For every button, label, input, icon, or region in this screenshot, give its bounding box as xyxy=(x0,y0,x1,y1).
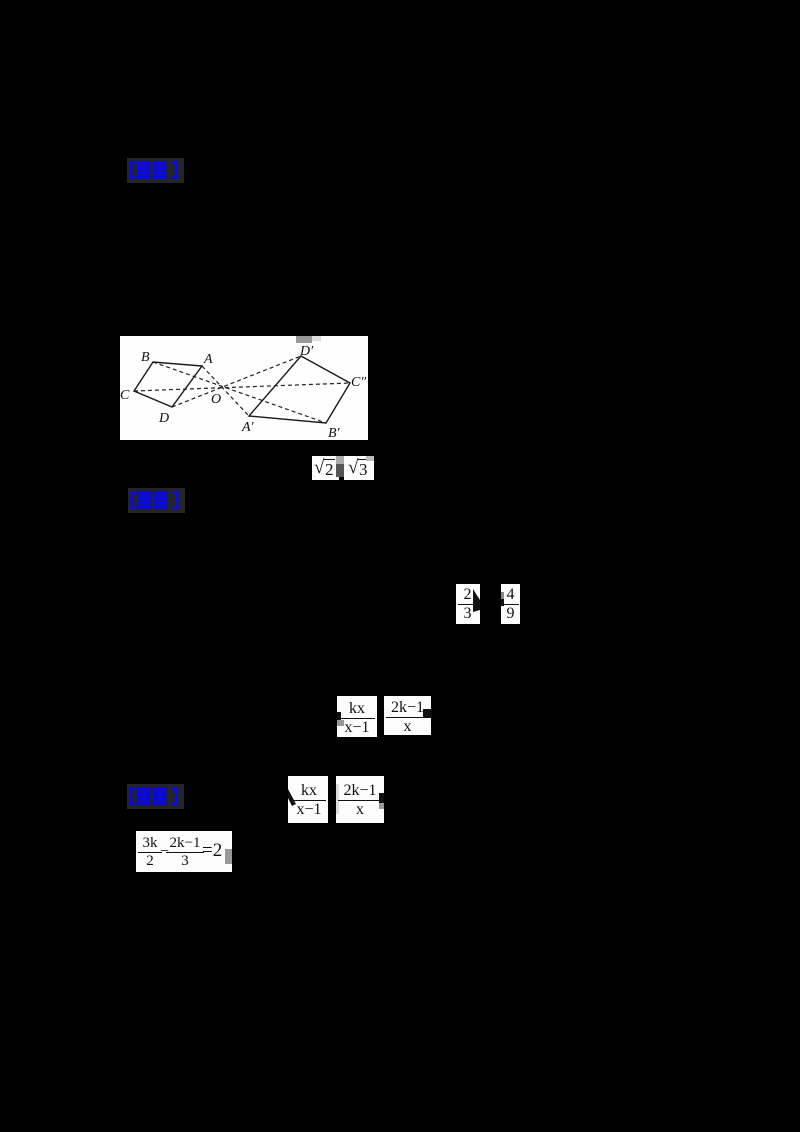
svg-text:O: O xyxy=(211,392,221,407)
svg-text:A: A xyxy=(203,352,213,367)
svg-text:C″: C″ xyxy=(351,375,366,390)
svg-text:D: D xyxy=(158,411,169,426)
svg-text:D′: D′ xyxy=(299,344,314,359)
svg-text:B: B xyxy=(141,350,150,365)
svg-text:A′: A′ xyxy=(241,420,255,435)
svg-text:C: C xyxy=(120,388,130,403)
svg-text:B′: B′ xyxy=(328,426,341,440)
